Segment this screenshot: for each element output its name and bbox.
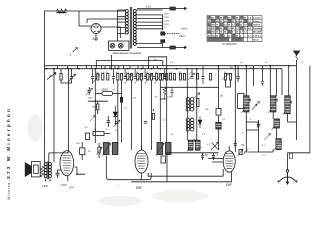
small box left bbox=[161, 156, 166, 163]
wire rectifier bottom bbox=[95, 34, 97, 42]
svg-text:0,1M: 0,1M bbox=[181, 27, 187, 31]
resistor on wire bbox=[120, 97, 122, 102]
RF coil 1 bbox=[244, 96, 249, 112]
svg-text:Minerva: Minerva bbox=[7, 182, 11, 199]
mains switch pole 1 bbox=[161, 32, 165, 35]
mains wire bottom bbox=[137, 46, 185, 48]
loop under EBF bbox=[106, 156, 151, 180]
coil area wires bbox=[246, 112, 296, 152]
secondary taps bbox=[136, 10, 162, 47]
IF transformer pair 1 top bbox=[186, 98, 194, 111]
wire rectifier right bbox=[101, 27, 120, 38]
svg-text:EK: EK bbox=[208, 21, 211, 23]
RF coil 5 bbox=[276, 139, 281, 150]
svg-text:Skalenlampen eingebaut: Skalenlampen eingebaut bbox=[113, 51, 142, 55]
wire left vertical bbox=[44, 11, 46, 163]
svg-text:220V~: 220V~ bbox=[179, 35, 187, 38]
svg-text:1M: 1M bbox=[92, 107, 95, 109]
svg-text:125V: 125V bbox=[164, 21, 170, 23]
IF pair bottom-left bbox=[104, 143, 110, 155]
caps row mid-bottom bbox=[201, 153, 204, 160]
wire y56.8 bbox=[149, 57, 167, 69]
heater wire top bbox=[137, 7, 185, 9]
capacitor x145 bbox=[144, 122, 147, 124]
cap right of resistors bbox=[236, 66, 239, 82]
capacitor det left bbox=[88, 87, 91, 95]
wire rectifier feed bbox=[79, 11, 91, 26]
cathode cap bbox=[56, 170, 62, 178]
bus line B bbox=[45, 65, 297, 67]
svg-text:EBF: EBF bbox=[136, 186, 143, 190]
capacitor trimmer bbox=[70, 69, 73, 79]
long verticals bbox=[53, 69, 55, 163]
mains plug arrow bbox=[183, 46, 187, 48]
left of IF comps bbox=[86, 133, 90, 140]
component row resistors bbox=[97, 74, 232, 88]
transformer primary winding bbox=[125, 10, 128, 34]
svg-text:2x50: 2x50 bbox=[167, 97, 173, 99]
IF pair bottom-right bbox=[157, 143, 163, 155]
dial lamp L2 bbox=[118, 43, 123, 48]
svg-text:110V: 110V bbox=[164, 24, 169, 26]
primary taps bbox=[118, 10, 126, 41]
svg-text:2M: 2M bbox=[49, 75, 52, 78]
resistor on mains wire bbox=[170, 46, 175, 49]
svg-text:AZ1: AZ1 bbox=[92, 37, 99, 41]
svg-text:6,3V 0,3: 6,3V 0,3 bbox=[253, 35, 262, 37]
trimmer X arrow mid bbox=[211, 142, 219, 150]
wire det bbox=[95, 92, 121, 94]
transformer secondary winding bbox=[133, 10, 136, 46]
resistor 2M bbox=[60, 74, 62, 81]
small resistor x197 bbox=[196, 74, 198, 80]
extra right verticals bbox=[254, 66, 263, 86]
chassis arrow top bbox=[183, 7, 187, 9]
svg-text:+70V: +70V bbox=[60, 183, 67, 187]
speaker cone bbox=[25, 162, 32, 177]
trimmer arrows in row bbox=[93, 73, 229, 84]
resistor near EK2 bbox=[239, 150, 242, 155]
RF coil 3 bbox=[285, 96, 290, 114]
loop wires around EK bbox=[131, 153, 231, 182]
svg-text:220V: 220V bbox=[164, 13, 170, 15]
resistor det bbox=[97, 104, 99, 110]
title text Minerva 373 W Minerphon bbox=[6, 107, 12, 200]
svg-text:1300 Ω: 1300 Ω bbox=[253, 25, 260, 27]
tiny value labels row bbox=[96, 67, 253, 74]
scattered tiny labels bbox=[88, 59, 304, 188]
output tube EL3N bbox=[60, 151, 74, 176]
trimmer arrow left bbox=[90, 116, 95, 122]
rectifier tube AZ1 bbox=[91, 24, 101, 34]
mains switch pole 2 bbox=[161, 40, 165, 43]
wires to output tube bbox=[45, 153, 69, 163]
svg-text:6,3V: 6,3V bbox=[146, 6, 151, 9]
svg-text:150V: 150V bbox=[164, 17, 170, 19]
svg-text:4×1380 Ω/V: 4×1380 Ω/V bbox=[222, 42, 237, 46]
resistor on heater wire bbox=[170, 7, 175, 10]
svg-text:Schwing: Schwing bbox=[253, 28, 262, 30]
wire top rail bbox=[45, 10, 126, 12]
svg-text:5000: 5000 bbox=[88, 97, 94, 99]
wire rectifier top bbox=[87, 19, 126, 23]
tube EBF bbox=[135, 150, 148, 173]
svg-text:25000: 25000 bbox=[102, 89, 109, 92]
dial lamp L1 bbox=[110, 43, 115, 48]
capacitor c-det1 bbox=[107, 116, 110, 127]
bobbin coil bbox=[216, 122, 221, 129]
resistor R-top bbox=[57, 9, 67, 13]
lower left cluster wires bbox=[160, 86, 187, 88]
switch mark ab bbox=[73, 48, 78, 53]
coil trimmer arrows bbox=[242, 99, 292, 151]
tube EK2 bbox=[223, 151, 235, 172]
left tone cluster: switch arrow bbox=[47, 73, 56, 80]
coil hatch overlays bbox=[104, 99, 291, 152]
resistor near EL3N bbox=[98, 147, 100, 153]
speaker driver bbox=[32, 162, 41, 177]
ground wire bbox=[288, 153, 310, 170]
junction dots bbox=[46, 65, 290, 70]
dial lamp box bbox=[109, 41, 129, 50]
resistor box right bbox=[216, 108, 221, 115]
svg-text:450+450: 450+450 bbox=[253, 31, 262, 34]
output transformer bbox=[44, 163, 51, 178]
diode D1 bbox=[113, 112, 117, 116]
svg-text:EKF: EKF bbox=[226, 183, 233, 187]
RF coil 4 bbox=[274, 119, 279, 128]
detector cluster: resistor 25000 bbox=[102, 91, 113, 95]
mid resistor small bbox=[80, 148, 85, 155]
bus interconnect stubs bbox=[58, 66, 158, 69]
field coil zigzag bbox=[40, 166, 43, 176]
svg-text:373 W Minerphon: 373 W Minerphon bbox=[6, 107, 12, 179]
RF coil 2 bbox=[271, 96, 276, 112]
small cap top bbox=[234, 140, 237, 148]
wire y101 stub bbox=[160, 98, 166, 100]
bus line C bbox=[45, 68, 283, 70]
capacitor c-det2 trimmer bbox=[115, 122, 118, 124]
transformer core bbox=[130, 7, 131, 49]
IF transformer pair 3 bbox=[187, 140, 200, 152]
switch link dashed bbox=[165, 33, 180, 35]
right mid cluster bbox=[254, 102, 260, 109]
svg-text:1300: 1300 bbox=[42, 184, 48, 188]
wire y87 right bbox=[187, 86, 218, 88]
IF transformer pair 2 bbox=[186, 118, 194, 131]
tube bottom wires bbox=[68, 167, 85, 181]
svg-text:Feldsp.: Feldsp. bbox=[253, 21, 261, 23]
svg-text:±7V: ±7V bbox=[69, 186, 74, 190]
wire det lower bbox=[88, 100, 108, 102]
component row caps bbox=[91, 66, 205, 84]
EK2 input wires bbox=[208, 159, 223, 163]
ground anchor bbox=[286, 170, 288, 172]
resistor mid x153 bbox=[152, 114, 154, 120]
wire from lamp caption down bbox=[111, 55, 113, 69]
svg-text:Netztr.: Netztr. bbox=[253, 39, 260, 42]
bus line A bbox=[96, 61, 163, 69]
svg-text:Lautspr.: Lautspr. bbox=[253, 16, 262, 19]
antenna bbox=[296, 60, 298, 66]
open frame box bbox=[238, 94, 245, 109]
voltage table bbox=[207, 16, 262, 42]
